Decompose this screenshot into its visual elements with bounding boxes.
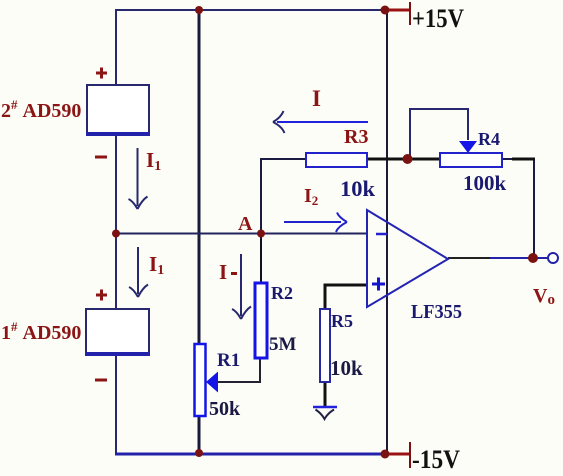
op-amp U1 LF355 (367, 210, 448, 307)
resistor R4 (440, 153, 502, 167)
label +15V (412, 4, 464, 33)
junction R3-R4 (403, 154, 413, 164)
svg-text:50k: 50k (209, 398, 241, 420)
current arrow I (273, 111, 368, 133)
svg-text:10k: 10k (330, 356, 363, 380)
svg-text:5M: 5M (269, 334, 297, 355)
wire left vertical (115, 9, 117, 455)
svg-text:R4: R4 (478, 129, 500, 149)
wire op-amp supply vertical (386, 10, 388, 454)
wire node A horizontal to op-amp (116, 233, 367, 235)
label I- (219, 260, 237, 284)
potentiometer R1 (195, 344, 206, 416)
output terminal circle (548, 253, 558, 263)
wire feedback loop to R4 wiper (410, 109, 468, 157)
polarity + of 2# AD590 (96, 68, 107, 79)
svg-text:I: I (219, 260, 227, 284)
svg-text:I: I (312, 86, 321, 111)
sensor 2# AD590 (86, 85, 150, 135)
current arrow I1 lower (129, 247, 148, 297)
current arrow I- into R2 (232, 254, 251, 319)
label 5M of R2 (269, 334, 297, 355)
label R5 (331, 311, 353, 331)
label R4 (478, 129, 500, 149)
svg-text:R2: R2 (271, 283, 293, 303)
svg-text:R1: R1 (217, 350, 240, 371)
+15V supply tick (389, 2, 410, 25)
svg-text:-15V: -15V (412, 445, 460, 471)
current arrow I2 (284, 213, 347, 233)
label 10k of R3 (340, 176, 376, 201)
resistor R5 (320, 309, 330, 382)
wire R1 wiper to R2 bottom (217, 357, 260, 382)
wire R5 bottom to ground (324, 382, 327, 406)
label 2# AD590 (1, 97, 81, 122)
label 10k of R5 (330, 356, 363, 380)
svg-text:R3: R3 (344, 126, 368, 148)
wire R4 right thick segment (512, 158, 535, 161)
label R3 (344, 126, 368, 148)
resistor R2 (255, 283, 267, 358)
junction top right +15V (381, 6, 390, 15)
wire bottom rail (115, 453, 387, 456)
label -15V (412, 445, 460, 474)
label 50k of R1 (209, 398, 241, 420)
junction bottom right -15V (381, 450, 390, 459)
wire top rail (116, 9, 387, 11)
svg-text:+15V: +15V (412, 4, 464, 33)
label I2 (304, 185, 318, 208)
-15V supply tick (389, 442, 410, 468)
svg-text:A: A (238, 213, 253, 235)
node A junction (257, 230, 265, 238)
polarity + of 1# AD590 (96, 290, 107, 301)
svg-text:R5: R5 (331, 311, 353, 331)
label Vo (533, 285, 555, 308)
label I1 lower (149, 252, 164, 278)
svg-text:10k: 10k (340, 176, 376, 201)
junction output (528, 253, 538, 263)
junction bottom mid (195, 449, 203, 457)
label R2 (271, 283, 293, 303)
wire R2 top from node A (260, 234, 262, 285)
svg-text:100k: 100k (463, 171, 507, 195)
resistor R3 (306, 153, 367, 167)
label LF355 (411, 301, 462, 323)
label I1 upper (146, 148, 161, 174)
label I (312, 86, 321, 111)
label 100k of R4 (463, 171, 507, 195)
wire R3 right to junction (367, 158, 440, 161)
svg-text:LF355: LF355 (411, 301, 462, 323)
potentiometer R4 wiper arrow (459, 141, 477, 153)
sensor 1# AD590 (85, 309, 150, 355)
ground (313, 407, 337, 419)
wire non-inverting input from R5 (325, 285, 367, 309)
junction left at node wire (112, 230, 120, 238)
potentiometer R1 wiper arrow (206, 372, 218, 393)
polarity - of 2# AD590 (95, 156, 107, 159)
wire R3 left down to node A (261, 159, 306, 234)
wire middle vertical bus (198, 10, 201, 454)
polarity - of 1# AD590 (95, 379, 107, 382)
label 1# AD590 (1, 319, 81, 344)
current arrow I1 upper (129, 148, 148, 209)
label node A (238, 213, 253, 235)
wire op-amp output (448, 257, 548, 259)
label R1 (217, 350, 240, 371)
junction top mid (195, 6, 203, 14)
wire R4 right to output (502, 159, 534, 257)
